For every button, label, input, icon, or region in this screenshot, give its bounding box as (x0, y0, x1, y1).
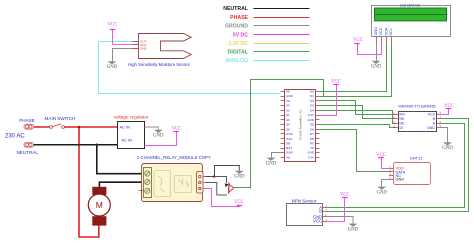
legend NEUTRAL (223, 6, 309, 12)
svg-text:SK: SK (286, 127, 290, 131)
svg-text:GND: GND (266, 162, 277, 167)
svg-text:1-CHANNEL_RELAY_MODULE COPY: 1-CHANNEL_RELAY_MODULE COPY (137, 155, 211, 160)
wire digital D5 to MAX485 DI (320, 125, 396, 128)
wire analog A0 from moisture OUT to NodeMCU A0 (99, 42, 281, 94)
svg-text:A0: A0 (286, 90, 290, 94)
relay inner graphics (154, 171, 192, 197)
VCC symbol (LCD) (353, 38, 363, 43)
svg-text:5V DC: 5V DC (233, 32, 249, 38)
wire digital LCD SCL to D1 (320, 44, 392, 97)
svg-text:RO: RO (400, 113, 406, 117)
svg-text:AC IN: AC IN (122, 138, 133, 143)
svg-text:VCC: VCC (313, 219, 322, 224)
motor M1 (88, 187, 110, 225)
wire ground LCD GND (376, 44, 378, 61)
ground (MAX485) (442, 142, 453, 151)
legend DIGITAL (228, 49, 310, 55)
svg-text:PHASE: PHASE (19, 118, 35, 123)
VCC symbol (relay) (234, 200, 244, 206)
moisture sensor body (133, 34, 192, 59)
svg-text:D8: D8 (310, 137, 314, 141)
svg-text:NEUTRAL: NEUTRAL (16, 150, 38, 155)
svg-text:D1: D1 (310, 94, 314, 98)
VCC symbol (DHT11) (376, 153, 386, 158)
svg-text:VCC: VCC (428, 113, 436, 117)
svg-text:NPN Sensor: NPN Sensor (292, 198, 317, 203)
svg-text:GND: GND (307, 151, 315, 155)
svg-text:230 AC: 230 AC (5, 134, 25, 140)
svg-text:S3: S3 (286, 104, 290, 108)
svg-text:GND: GND (234, 175, 245, 180)
wire digital D6 to DHT11 DATA (320, 130, 391, 172)
NodeMCU U1 (281, 90, 320, 162)
ground (DHT11) (376, 187, 387, 196)
relay pin header (197, 172, 206, 194)
svg-text:AC IN: AC IN (120, 125, 131, 130)
voltage regulator U5 (118, 122, 145, 149)
svg-text:D5: D5 (310, 123, 314, 127)
wire 5V NPN VCC (328, 198, 345, 222)
relay terminal stub 3 (139, 190, 144, 192)
svg-text:B: B (319, 209, 322, 214)
wire relay GND pin (206, 166, 240, 177)
svg-text:MAX485-TTLtoRS485: MAX485-TTLtoRS485 (398, 104, 435, 108)
MAX485 module U2 (393, 104, 442, 131)
legend 3.3V DC (228, 41, 309, 47)
relay terminal block (144, 168, 152, 198)
svg-text:3.3V: 3.3V (286, 137, 293, 141)
svg-text:GROUND: GROUND (225, 23, 248, 29)
ground (moisture) (107, 61, 118, 70)
DHT11 U3 (389, 155, 431, 184)
switch S1 (50, 124, 65, 129)
ground (LCD) (371, 61, 382, 70)
svg-text:Vin: Vin (286, 156, 291, 160)
wire 5V NodeMCU 3.3V (320, 85, 337, 116)
svg-text:S0: S0 (286, 123, 290, 127)
svg-text:RST: RST (286, 146, 292, 150)
node junction relay IN (213, 175, 215, 177)
NPN Sensor U4 (287, 198, 329, 225)
wire 5V to moisture VCC (113, 30, 139, 45)
svg-text:D0: D0 (310, 90, 314, 94)
wire 5V MAX485 VCC (440, 109, 449, 115)
svg-text:GND: GND (286, 151, 294, 155)
svg-text:D2: D2 (310, 99, 314, 103)
wire 5V LCD VCC (358, 44, 382, 55)
wire phase switch to regulator (64, 126, 117, 128)
svg-text:VCC: VCC (378, 27, 383, 35)
svg-text:DE: DE (400, 122, 406, 126)
svg-text:GND: GND (427, 126, 435, 130)
svg-text:S2: S2 (286, 108, 290, 112)
wire relay IN to transistor base (215, 177, 227, 184)
svg-text:RE: RE (400, 117, 406, 121)
svg-text:ANALOG: ANALOG (226, 58, 248, 64)
svg-text:VCC: VCC (234, 200, 244, 205)
svg-text:GND: GND (442, 146, 453, 151)
svg-text:DI: DI (400, 126, 404, 130)
legend 5V DC (233, 32, 310, 38)
svg-text:SCL: SCL (388, 27, 393, 35)
svg-text:DHT11: DHT11 (410, 155, 423, 160)
svg-text:VCC: VCC (108, 23, 118, 28)
wire digital relay transistor loop to D1 (251, 80, 324, 189)
wire digital D2 to MAX485 RO (320, 101, 396, 115)
svg-text:VCC: VCC (172, 126, 182, 131)
wire digital D4 to MAX485 DE (320, 111, 396, 124)
svg-text:GND: GND (286, 132, 294, 136)
svg-text:3.3V: 3.3V (308, 113, 315, 117)
wire 5V DHT11 VDD (382, 158, 391, 169)
svg-text:TX: TX (310, 146, 314, 150)
fuse F2 neutral (24, 142, 34, 147)
VCC symbol (MAX485) (444, 104, 454, 109)
svg-text:GND: GND (396, 177, 405, 182)
svg-text:GND: GND (107, 65, 118, 70)
wire neutral fuse to regulator (34, 144, 118, 146)
wire digital MAX485 A to NPN A (328, 124, 465, 208)
ground (regulator) (153, 130, 164, 139)
svg-text:EN: EN (286, 142, 290, 146)
fuse F1 phase (24, 124, 34, 129)
svg-text:RX: RX (310, 142, 314, 146)
svg-text:VU: VU (286, 99, 290, 103)
legend ANALOG (226, 58, 310, 64)
svg-text:GND: GND (371, 65, 382, 70)
LCD module (372, 3, 451, 43)
svg-text:NEUTRAL: NEUTRAL (223, 6, 249, 12)
ground (relay) (234, 171, 245, 180)
svg-text:D6: D6 (310, 127, 314, 131)
VCC symbol (NodeMCU) (331, 79, 341, 84)
svg-text:voltage regulator: voltage regulator (114, 114, 149, 119)
ground (NodeMCU) (266, 158, 277, 167)
VCC symbol (NPN) (340, 193, 350, 198)
wire relay middle pin to transistor emitter (206, 183, 228, 196)
svg-text:3.3V DC: 3.3V DC (228, 41, 248, 47)
wire digital transistor to loop (234, 187, 251, 189)
svg-text:VCC: VCC (331, 79, 341, 84)
wire phase down to motor (79, 127, 99, 237)
svg-text:D4: D4 (310, 108, 314, 112)
wire neutral down to relay terminal 1 (97, 145, 144, 174)
node junction phase (78, 126, 81, 129)
node junction neutral (96, 144, 99, 147)
wire ground DHT11 GND (382, 180, 391, 187)
wire 5V regulator VCC out (145, 132, 177, 146)
ground (NPN) (348, 224, 359, 233)
svg-text:D7: D7 (310, 132, 314, 136)
VCC symbol (regulator) (172, 126, 182, 131)
svg-text:GND: GND (286, 94, 294, 98)
legend PHASE (230, 15, 309, 21)
svg-text:VCC: VCC (340, 193, 350, 198)
wire ground NPN GND (328, 217, 354, 224)
wire ground moisture GND (113, 49, 139, 62)
svg-text:CH340 NodeMCU V3: CH340 NodeMCU V3 (299, 110, 303, 140)
svg-text:S1: S1 (286, 113, 290, 117)
svg-text:High Sensitivity Moisture Sens: High Sensitivity Moisture Sensor (128, 62, 190, 67)
wire digital D3 to MAX485 RE (320, 106, 396, 119)
wire ground MAX485 GND (440, 128, 448, 143)
svg-text:3.3V: 3.3V (308, 156, 315, 160)
VCC symbol (moisture) (108, 23, 118, 30)
legend GROUND (225, 23, 310, 29)
svg-text:LCD 16X2 I2C: LCD 16X2 I2C (400, 3, 421, 7)
wire digital MAX485 B to NPN B (328, 119, 469, 212)
svg-text:DIGITAL: DIGITAL (228, 49, 249, 55)
wire 5V relay VCC pin (206, 189, 240, 207)
svg-text:D3: D3 (310, 104, 314, 108)
svg-text:VCC: VCC (353, 38, 363, 43)
wire ground NodeMCU GND left (272, 153, 281, 158)
svg-text:M: M (96, 200, 103, 210)
wire ground regulator GND (145, 127, 159, 130)
svg-text:GND: GND (376, 191, 387, 196)
svg-text:PHASE: PHASE (230, 15, 248, 21)
wire phase fuse to switch (34, 126, 50, 128)
wire motor to relay terminal 2 (99, 182, 143, 187)
wire digital LCD SDA to D0 (320, 44, 387, 92)
svg-text:GND: GND (348, 228, 359, 233)
svg-text:MAIN SWITCH: MAIN SWITCH (45, 116, 76, 121)
transistor Q1 (225, 183, 234, 194)
svg-text:GND: GND (153, 134, 164, 139)
relay module K1 (139, 164, 206, 202)
svg-text:GND: GND (307, 118, 315, 122)
svg-text:GND: GND (140, 47, 148, 51)
